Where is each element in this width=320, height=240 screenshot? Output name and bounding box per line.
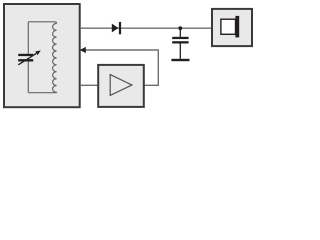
arrowhead feedback into tank [80,47,86,53]
wire RF output (tank to earphone) [80,27,212,29]
wire tank left leg lower [27,61,29,92]
wire tank bottom [28,92,56,94]
tuned-circuit block box [4,4,80,107]
node junction [178,26,182,30]
amplifier block box [98,65,144,107]
ground [171,59,189,61]
inductor L1 [53,23,57,92]
amplifier symbol (triangle) [110,75,132,96]
wire tank left leg upper [27,22,29,54]
diode D1 [112,22,121,34]
capacitor C2 [172,28,188,59]
variable capacitor C1 [18,50,41,64]
wire amp input [80,84,98,86]
earphone LS1 [221,16,239,38]
wire tank top [28,22,56,24]
earphone block box [212,9,252,46]
wire feedback (amp output up and back to tank) [81,50,159,85]
